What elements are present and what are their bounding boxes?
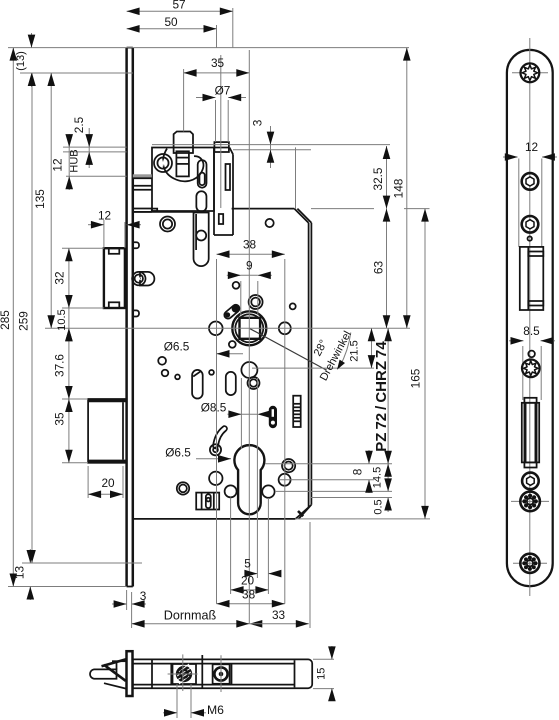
svg-text:38: 38 xyxy=(242,588,256,602)
dimension 38 follower holes xyxy=(217,253,285,255)
svg-text:0.5: 0.5 xyxy=(373,499,385,514)
dimension 259 xyxy=(31,73,33,563)
dimension 14.5 xyxy=(387,464,389,492)
dimension 8.5 plate xyxy=(509,340,524,342)
svg-text:HUB: HUB xyxy=(69,149,81,172)
svg-text:8.5: 8.5 xyxy=(523,324,540,338)
svg-text:Ø8.5: Ø8.5 xyxy=(201,401,227,415)
svg-text:12: 12 xyxy=(98,209,111,223)
dimension M6 xyxy=(176,684,178,718)
latch spring xyxy=(163,149,203,182)
dimension 15 xyxy=(313,658,334,660)
auxiliary bolt box on faceplate xyxy=(104,248,125,308)
latch rails xyxy=(133,174,152,177)
dimension 148 xyxy=(406,48,408,329)
svg-text:12: 12 xyxy=(525,140,538,154)
dimension 12 plate xyxy=(503,156,518,158)
latch mechanism sub-block xyxy=(214,147,230,149)
svg-text:37.6: 37.6 xyxy=(53,354,67,377)
mechanism screw lower xyxy=(160,217,175,232)
svg-text:Ø7: Ø7 xyxy=(215,84,231,98)
bottom view screw xyxy=(213,664,230,684)
follower hole left xyxy=(209,322,223,336)
plate hole small xyxy=(528,351,535,358)
svg-text:165: 165 xyxy=(409,368,423,388)
dimension 63 xyxy=(386,209,388,329)
small hole xyxy=(528,236,532,240)
hole group left small xyxy=(158,357,166,365)
svg-text:35: 35 xyxy=(211,56,225,70)
dimension 13 bottom xyxy=(29,549,31,563)
svg-text:5: 5 xyxy=(244,557,251,571)
dimension 3 top right xyxy=(270,126,272,168)
svg-text:259: 259 xyxy=(17,311,31,331)
latch pin (Ø7) xyxy=(214,142,229,152)
dimension 10.5 xyxy=(68,308,70,342)
svg-text:PZ 72 / CHRZ 74: PZ 72 / CHRZ 74 xyxy=(373,341,390,452)
dimension 2.5 xyxy=(88,128,90,168)
svg-text:12: 12 xyxy=(51,158,65,171)
dimension 50 xyxy=(127,28,217,30)
svg-text:135: 135 xyxy=(33,189,47,209)
deadbolt xyxy=(88,399,127,463)
svg-text:8: 8 xyxy=(351,468,365,475)
hole Ø8.5 top center xyxy=(241,362,257,378)
dimension 285 xyxy=(12,48,14,587)
dimension 32.5 xyxy=(386,146,388,209)
lock case outline xyxy=(133,211,193,213)
latch guide xyxy=(176,151,189,176)
svg-text:148: 148 xyxy=(392,178,406,198)
svg-text:3: 3 xyxy=(140,589,147,603)
mechanism screw upper xyxy=(154,154,172,172)
svg-text:33: 33 xyxy=(272,608,286,622)
dimension 135 xyxy=(50,73,52,328)
locking lever xyxy=(216,429,225,446)
bottom view case xyxy=(133,659,312,688)
svg-text:M6: M6 xyxy=(207,703,224,717)
dimension Dornmass xyxy=(132,623,250,625)
svg-text:20: 20 xyxy=(101,476,115,490)
black pin component xyxy=(269,406,277,428)
svg-text:Ø6.5: Ø6.5 xyxy=(165,446,191,460)
square follower nut xyxy=(232,311,266,345)
dimension Ø7 xyxy=(196,97,216,99)
dimension 165 xyxy=(424,209,426,519)
svg-text:2.5: 2.5 xyxy=(72,116,86,133)
dimension PZ72 CHRZ74 xyxy=(387,328,389,463)
dimension 12 box xyxy=(88,224,104,226)
drehwinkel ray xyxy=(249,328,325,369)
component box bottom left xyxy=(196,493,219,510)
slot capsule left xyxy=(192,370,203,399)
latch head xyxy=(174,132,193,154)
dimension 0.5 xyxy=(387,498,389,513)
bottom view latch bolt xyxy=(90,669,117,678)
faceplate tab lower xyxy=(133,310,139,316)
svg-text:15: 15 xyxy=(316,668,328,680)
extension and center lines xyxy=(8,47,409,49)
svg-text:10.5: 10.5 xyxy=(56,309,68,330)
dimension 20 bolt xyxy=(88,493,123,495)
svg-text:63: 63 xyxy=(372,261,386,275)
latch tail pendulum xyxy=(196,191,206,211)
latch cutout xyxy=(520,247,544,310)
dimension 9 xyxy=(241,274,258,276)
strike faceplate outline xyxy=(507,50,553,586)
case hole upper small xyxy=(233,282,240,289)
dimension 21.5 xyxy=(371,328,373,368)
svg-text:50: 50 xyxy=(164,15,178,29)
svg-text:9: 9 xyxy=(246,259,253,273)
dimension (13) xyxy=(31,33,33,48)
dimension 32 xyxy=(68,248,70,308)
faceplate screw 2 xyxy=(522,173,539,190)
svg-text:21.5: 21.5 xyxy=(349,340,361,361)
mechanism capsule slider xyxy=(198,160,207,188)
screw bottom left xyxy=(177,482,189,494)
svg-text:57: 57 xyxy=(172,0,185,12)
svg-text:285: 285 xyxy=(0,310,12,330)
screw right of cylinder xyxy=(282,459,295,472)
follower hole right xyxy=(279,322,291,334)
faceplate screw with pin xyxy=(140,272,154,286)
screw above follower xyxy=(249,295,263,309)
cylinder slot xyxy=(524,398,536,468)
latch tail box xyxy=(133,208,152,210)
dimension 5 xyxy=(246,573,257,575)
dimension 35 bolt xyxy=(68,399,70,463)
faceplate screw 3 xyxy=(522,216,539,233)
faceplate (Stulp) xyxy=(125,48,128,587)
hole right of cylinder xyxy=(279,474,291,486)
bottom view faceplate xyxy=(127,651,133,696)
svg-text:Dornmaß: Dornmaß xyxy=(164,609,217,623)
bottom view M6 boss xyxy=(173,664,197,684)
small hole below follower xyxy=(229,341,236,348)
dimension 8 xyxy=(368,450,370,464)
svg-text:32.5: 32.5 xyxy=(371,167,385,190)
dimension 38 bottom xyxy=(217,603,285,605)
svg-text:35: 35 xyxy=(53,412,67,426)
dimension 3 bottom xyxy=(112,603,127,605)
svg-text:13: 13 xyxy=(13,566,27,580)
dimension 33 xyxy=(249,623,308,625)
screw below Ø8.5 xyxy=(248,377,260,389)
hole 20-left xyxy=(225,485,237,497)
svg-text:20: 20 xyxy=(241,574,255,588)
dimension 57 xyxy=(127,10,233,12)
hole 20-right xyxy=(262,485,274,497)
hole left of cylinder xyxy=(209,472,222,485)
drehwinkel arc xyxy=(340,333,351,368)
dimension 20 holes xyxy=(231,589,269,591)
plate screw mid star xyxy=(522,360,540,378)
faceplate screw top star xyxy=(512,72,548,74)
dimension 12 HUB xyxy=(68,134,70,190)
svg-text:(13): (13) xyxy=(15,51,27,71)
plate screw star 2 xyxy=(513,562,547,564)
svg-text:14.5: 14.5 xyxy=(372,467,384,488)
latch mechanism block xyxy=(152,148,214,212)
spring ladder xyxy=(293,396,301,427)
plate screw star 1 xyxy=(511,500,549,502)
dimension 37.6 xyxy=(68,328,70,399)
dimension 35 top xyxy=(184,72,250,74)
case screw hole top right xyxy=(266,219,274,227)
svg-text:32: 32 xyxy=(53,271,67,284)
svg-text:Ø6.5: Ø6.5 xyxy=(164,340,190,354)
svg-text:38: 38 xyxy=(243,238,257,252)
faceplate tab upper xyxy=(133,242,139,248)
slot capsule mid xyxy=(226,372,236,395)
svg-text:3: 3 xyxy=(251,119,265,126)
angled slot near follower xyxy=(223,303,241,320)
plate screw hex xyxy=(522,473,539,490)
small hole mid xyxy=(209,370,214,375)
profile cylinder hole xyxy=(234,445,264,514)
case hole right small xyxy=(290,303,296,309)
